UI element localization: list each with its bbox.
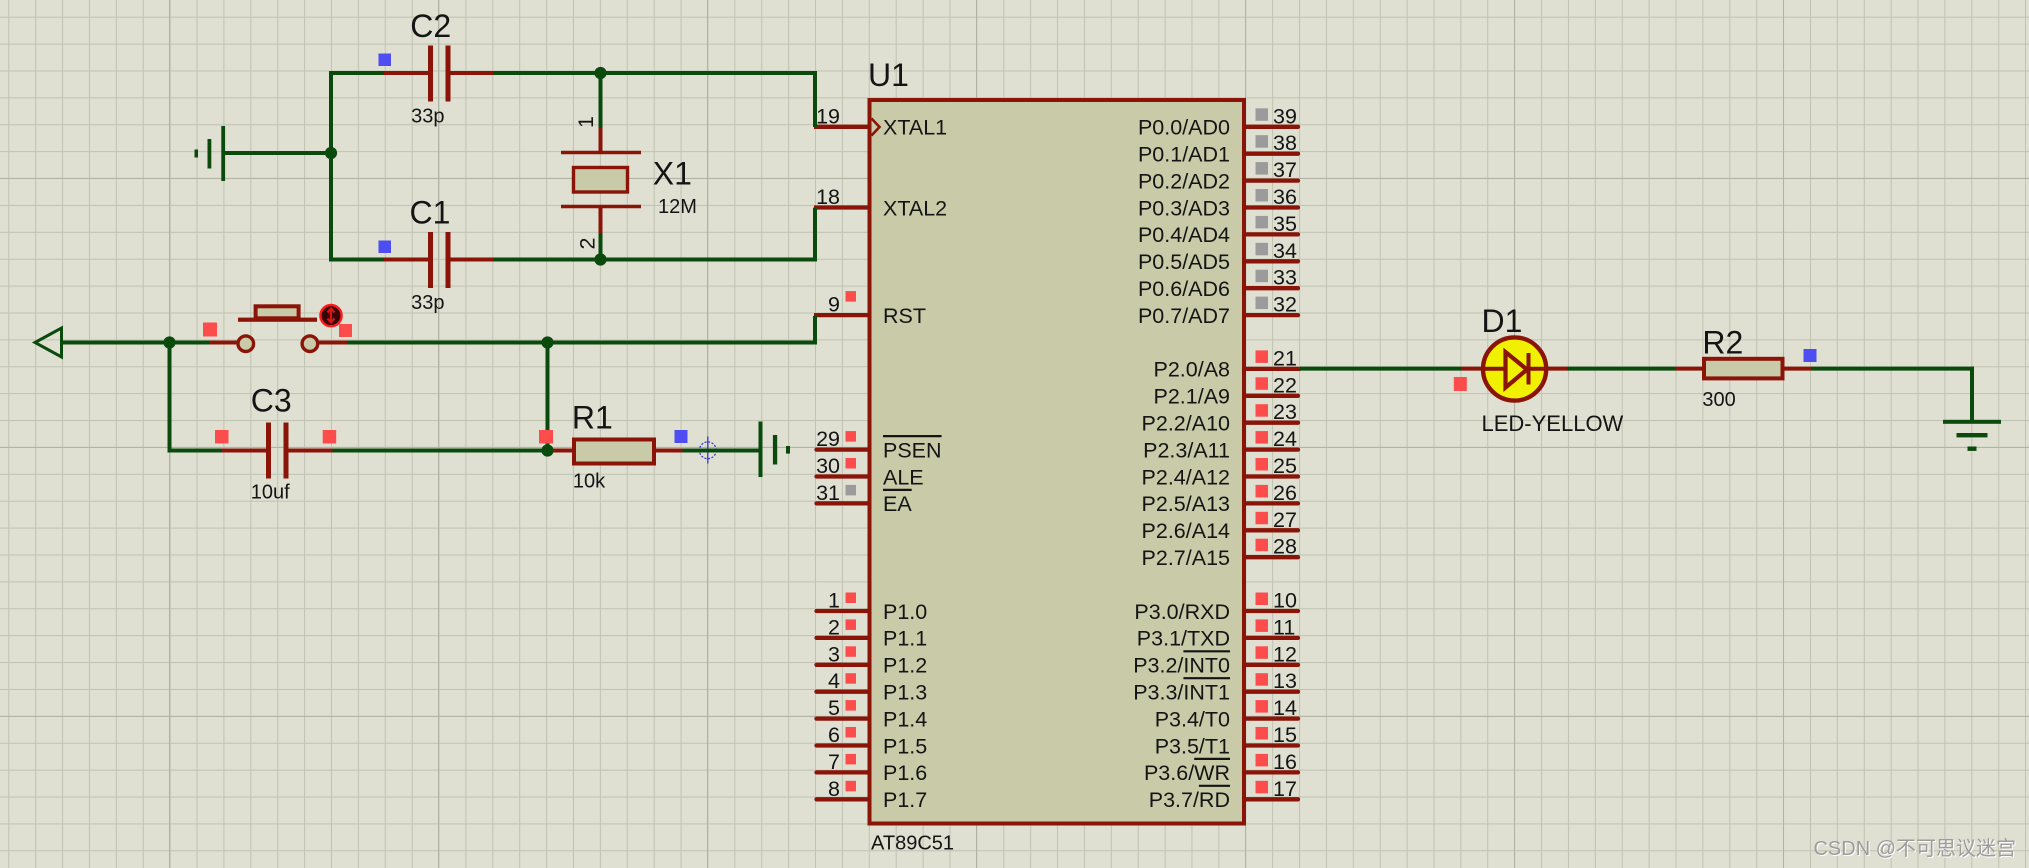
pin 3 (P1.2) stub [817,663,869,667]
svg-text:32: 32 [1273,293,1297,317]
svg-text:P3.6/WR: P3.6/WR [1144,761,1230,785]
svg-text:21: 21 [1273,346,1297,370]
pin 39 (P0.0/AD0) stub [1245,125,1298,129]
pin 5 (P1.4) stub [817,716,869,720]
svg-text:2: 2 [576,238,600,250]
pin 33 (P0.6/AD6) stub [1245,286,1298,290]
svg-text:39: 39 [1273,104,1297,128]
junction [163,336,175,348]
pin 22 (P2.1/A9) stub [1245,394,1298,398]
C3 state square (right) [323,430,337,444]
LED D1 [1462,337,1567,400]
svg-text:C2: C2 [410,8,451,44]
svg-text:34: 34 [1273,239,1297,263]
pin 23 (P2.2/A10) stub [1245,421,1298,425]
wire [329,258,384,262]
svg-text:300: 300 [1702,389,1735,411]
svg-text:CSDN @不可思议迷宫: CSDN @不可思议迷宫 [1813,837,2016,860]
overline for EA [883,489,912,491]
pin 4 (P1.3) stub [817,690,869,694]
pin 14 (P3.4/T0) stub [1245,716,1298,720]
ground (left of oscillator) [221,126,225,181]
pin 21 (P2.0/A8) stub [1245,367,1301,371]
button toggle marker [320,305,341,326]
svg-text:15: 15 [1273,723,1297,747]
svg-text:P3.7/RD: P3.7/RD [1149,788,1230,812]
wire [493,258,601,262]
svg-text:U1: U1 [868,57,909,93]
pin 6 (P1.5) stub [817,743,869,747]
pin 24 state square [1256,431,1269,444]
svg-text:P2.4/A12: P2.4/A12 [1142,465,1230,489]
junction [594,253,606,265]
pin 23 state square [1256,404,1269,417]
pin 21 state square [1256,350,1269,363]
svg-text:P1.0: P1.0 [883,600,927,624]
pin 18 (XTAL2) stub [814,205,869,209]
pin 27 (P2.6/A14) stub [1245,528,1298,532]
svg-text:EA: EA [883,492,912,516]
overline for WR [1194,758,1230,760]
pin 27 state square [1256,512,1269,525]
svg-text:AT89C51: AT89C51 [871,833,954,855]
IC U1 AT89C51 microcontroller body [870,100,1245,824]
wire [329,71,333,262]
svg-text:P0.7/AD7: P0.7/AD7 [1138,304,1230,328]
XTAL1 clock input triangle [872,119,880,136]
svg-text:P2.5/A13: P2.5/A13 [1142,492,1230,516]
wire [599,73,603,128]
svg-text:P0.0/AD0: P0.0/AD0 [1138,116,1230,140]
R1 terminal marker (blue) [675,430,688,443]
pin 26 (P2.5/A13) stub [1245,501,1298,505]
pin 29 state square [846,431,857,442]
svg-text:23: 23 [1273,400,1297,424]
pin 36 state square [1256,189,1269,202]
net arrow (left) [35,328,62,357]
pin 35 state square [1256,216,1269,229]
pin 7 state square [846,754,857,765]
svg-text:10uf: 10uf [251,482,290,504]
svg-text:P3.2/INT0: P3.2/INT0 [1133,654,1230,678]
svg-text:9: 9 [828,293,840,317]
svg-text:PSEN: PSEN [883,438,942,462]
svg-text:26: 26 [1273,481,1297,505]
pin 30 (ALE) stub [817,474,869,478]
svg-text:16: 16 [1273,750,1297,774]
svg-text:3: 3 [828,642,840,666]
junction [541,336,553,348]
wire [329,71,384,75]
svg-text:28: 28 [1273,535,1297,559]
resistor R2 [1676,359,1811,379]
overline for PSEN [883,435,942,437]
pin 34 state square [1256,243,1269,256]
wire [348,341,818,345]
svg-text:ALE: ALE [883,465,924,489]
wire [1567,367,1676,371]
pin 39 state square [1256,108,1269,121]
pin 37 state square [1256,162,1269,175]
svg-text:P2.6/A14: P2.6/A14 [1142,519,1230,543]
svg-text:R1: R1 [572,399,613,435]
pin 12 (P3.2/INT0) stub [1245,663,1298,667]
svg-text:12: 12 [1273,642,1297,666]
D1 state square (red) [1454,377,1467,391]
svg-text:P2.0/A8: P2.0/A8 [1154,358,1231,382]
pin 31 state square [846,485,857,496]
svg-text:P2.1/A9: P2.1/A9 [1154,385,1231,409]
pin 11 state square [1256,619,1269,632]
pin 17 (P3.7/RD) stub [1245,797,1298,801]
pin 32 (P0.7/AD7) stub [1245,313,1298,317]
pin 13 (P3.3/INT1) stub [1245,690,1298,694]
svg-text:XTAL2: XTAL2 [883,196,947,220]
svg-text:P1.1: P1.1 [883,627,927,651]
pin 25 state square [1256,458,1269,471]
svg-text:P1.3: P1.3 [883,681,927,705]
pin 6 state square [846,727,857,738]
C2 terminal marker (blue) [379,54,392,67]
svg-text:P0.1/AD1: P0.1/AD1 [1138,143,1230,167]
svg-text:17: 17 [1273,777,1297,801]
overline for INT0 [1183,650,1230,652]
pin 36 (P0.3/AD3) stub [1245,205,1298,209]
svg-text:P1.2: P1.2 [883,654,927,678]
wire [599,233,603,260]
overline for INT1 [1183,677,1230,679]
junction [541,444,553,456]
svg-text:P3.1/TXD: P3.1/TXD [1137,627,1230,651]
pin 7 (P1.6) stub [817,770,869,774]
svg-text:33p: 33p [411,106,444,128]
wire [168,449,223,453]
button state square (right) [339,324,352,337]
pin 9 (RST) stub [814,313,869,317]
ground (bottom right) [1943,420,2001,424]
svg-text:2: 2 [828,615,840,639]
svg-text:LED-YELLOW: LED-YELLOW [1482,411,1624,436]
pin 2 state square [846,619,857,630]
svg-text:4: 4 [828,669,840,693]
svg-text:C1: C1 [410,195,451,231]
svg-text:22: 22 [1273,373,1297,397]
svg-text:33: 33 [1273,266,1297,290]
svg-text:14: 14 [1273,696,1297,720]
pin 38 state square [1256,135,1269,148]
svg-text:10k: 10k [573,471,606,493]
svg-text:P3.3/INT1: P3.3/INT1 [1133,681,1230,705]
pin 1 state square [846,593,857,604]
capacitor C3 [222,423,333,479]
pin 32 state square [1256,297,1269,310]
junction [325,147,337,159]
pin 15 (P3.5/T1) stub [1245,743,1298,747]
svg-text:P1.6: P1.6 [883,761,927,785]
button state square (left) [203,323,217,337]
svg-text:1: 1 [574,116,598,128]
svg-text:P1.7: P1.7 [883,788,927,812]
R2 terminal marker (blue) [1804,349,1817,362]
overline for RD [1199,785,1230,787]
pin 25 (P2.4/A12) stub [1245,474,1298,478]
svg-text:31: 31 [816,481,840,505]
wire [601,258,818,262]
svg-text:R2: R2 [1702,325,1743,361]
svg-text:XTAL1: XTAL1 [883,116,947,140]
wire [1970,367,1974,421]
svg-text:36: 36 [1273,185,1297,209]
svg-text:8: 8 [828,777,840,801]
origin marker [690,437,724,464]
svg-text:P2.3/A11: P2.3/A11 [1143,438,1230,462]
svg-text:5: 5 [828,696,840,720]
pin 12 state square [1256,646,1269,659]
pin 28 (P2.7/A15) stub [1245,555,1298,559]
pin 26 state square [1256,485,1269,498]
pin 33 state square [1256,270,1269,283]
svg-text:33p: 33p [411,292,444,314]
pin 11 (P3.1/TXD) stub [1245,636,1298,640]
svg-text:P3.4/T0: P3.4/T0 [1155,707,1230,731]
svg-text:19: 19 [816,104,840,128]
svg-text:1: 1 [828,589,840,613]
svg-text:RST: RST [883,304,926,328]
svg-text:10: 10 [1273,589,1297,613]
pin 31 (EA) stub [817,501,869,505]
ground (right of R1) [759,422,763,478]
wire [546,343,550,451]
resistor R1 [553,440,683,464]
wire [225,151,331,155]
capacitor C1 [384,232,493,288]
pin 8 state square [846,781,857,792]
junction [594,67,606,79]
pin 30 state square [846,458,857,469]
wire [168,343,172,453]
wire [493,71,601,75]
C1 terminal marker (blue) [379,241,392,254]
svg-text:P0.4/AD4: P0.4/AD4 [1138,223,1230,247]
pin 38 (P0.1/AD1) stub [1245,152,1298,156]
pin 15 state square [1256,727,1269,740]
wire [62,341,210,345]
pin 9 state square [846,291,857,302]
svg-text:35: 35 [1273,212,1297,236]
wire [333,449,554,453]
svg-text:37: 37 [1273,158,1297,182]
svg-text:P0.5/AD5: P0.5/AD5 [1138,250,1230,274]
pin 37 (P0.2/AD2) stub [1245,178,1298,182]
pin 5 state square [846,700,857,711]
R1 state square (red) [539,430,553,444]
wire [813,71,817,127]
wire [813,208,817,262]
pin 8 (P1.7) stub [817,797,869,801]
pin 35 (P0.4/AD4) stub [1245,232,1298,236]
pin 2 (P1.1) stub [817,636,869,640]
pin 34 (P0.5/AD5) stub [1245,259,1298,263]
pin 10 (P3.0/RXD) stub [1245,609,1298,613]
svg-text:25: 25 [1273,454,1297,478]
pin 29 (PSEN) stub [817,447,869,451]
pin 16 (P3.6/WR) stub [1245,770,1298,774]
wire [683,449,760,453]
svg-text:P3.5/T1: P3.5/T1 [1155,734,1230,758]
svg-text:27: 27 [1273,508,1297,532]
svg-text:30: 30 [816,454,840,478]
pin 10 state square [1256,593,1269,606]
svg-text:P2.2/A10: P2.2/A10 [1142,412,1230,436]
svg-text:11: 11 [1273,615,1295,639]
svg-text:P2.7/A15: P2.7/A15 [1142,546,1230,570]
svg-text:C3: C3 [251,383,292,419]
wire [813,316,817,345]
svg-text:P3.0/RXD: P3.0/RXD [1134,600,1230,624]
svg-text:6: 6 [828,723,840,747]
pin 28 state square [1256,539,1269,552]
svg-text:D1: D1 [1482,303,1523,339]
wire [601,71,818,75]
svg-text:7: 7 [828,750,840,774]
pin 13 state square [1256,673,1269,686]
crystal X1 [561,128,641,233]
svg-text:24: 24 [1273,427,1297,451]
pin 14 state square [1256,700,1269,713]
pin 3 state square [846,646,857,657]
push button (reset switch) [209,306,348,351]
svg-text:P0.6/AD6: P0.6/AD6 [1138,277,1230,301]
C3 state square (left) [215,430,229,444]
pin 24 (P2.3/A11) stub [1245,447,1298,451]
pin 4 state square [846,673,857,684]
capacitor C2 [384,46,493,102]
svg-text:12M: 12M [658,196,697,218]
svg-text:13: 13 [1273,669,1297,693]
wire [1300,367,1462,371]
svg-text:P1.5: P1.5 [883,734,927,758]
pin 17 state square [1256,781,1269,794]
pin 22 state square [1256,377,1269,390]
svg-text:P0.2/AD2: P0.2/AD2 [1138,169,1230,193]
svg-text:38: 38 [1273,131,1297,155]
pin 16 state square [1256,754,1269,767]
wire [1811,367,1974,371]
svg-text:P1.4: P1.4 [883,707,927,731]
svg-text:X1: X1 [653,155,692,191]
pin 19 (XTAL1) stub [814,125,869,129]
svg-text:P0.3/AD3: P0.3/AD3 [1138,196,1230,220]
svg-text:18: 18 [816,185,840,209]
svg-text:29: 29 [816,427,840,451]
pin 1 (P1.0) stub [817,609,869,613]
